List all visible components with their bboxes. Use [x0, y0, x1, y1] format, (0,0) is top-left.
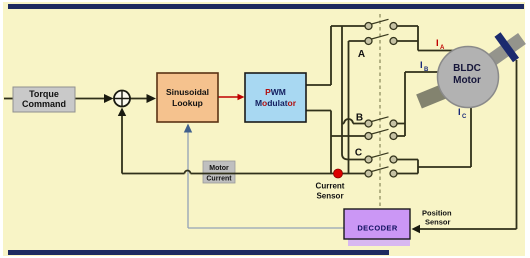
svg-text:C: C — [462, 114, 467, 120]
svg-text:A: A — [440, 45, 445, 51]
svg-text:B: B — [424, 67, 429, 73]
svg-text:Motor: Motor — [209, 165, 229, 172]
svg-text:Position: Position — [422, 209, 452, 218]
svg-text:Torque: Torque — [29, 89, 59, 99]
svg-text:Modulator: Modulator — [255, 98, 297, 108]
svg-text:Lookup: Lookup — [172, 98, 203, 108]
svg-text:Sensor: Sensor — [425, 218, 451, 227]
svg-text:Command: Command — [22, 99, 66, 109]
svg-text:B: B — [356, 113, 363, 124]
svg-text:DECODER: DECODER — [357, 224, 397, 233]
svg-text:A: A — [358, 49, 365, 60]
svg-text:Sensor: Sensor — [316, 192, 343, 201]
svg-text:Current: Current — [316, 182, 345, 191]
svg-text:Sinusoidal: Sinusoidal — [166, 87, 209, 97]
svg-text:C: C — [355, 148, 362, 159]
svg-text:Motor: Motor — [453, 75, 481, 86]
svg-text:BLDC: BLDC — [453, 63, 481, 74]
svg-text:I: I — [458, 107, 461, 118]
svg-text:Current: Current — [206, 176, 232, 183]
svg-text:PWM: PWM — [265, 87, 286, 97]
svg-text:I: I — [436, 38, 439, 49]
svg-text:I: I — [420, 60, 423, 71]
